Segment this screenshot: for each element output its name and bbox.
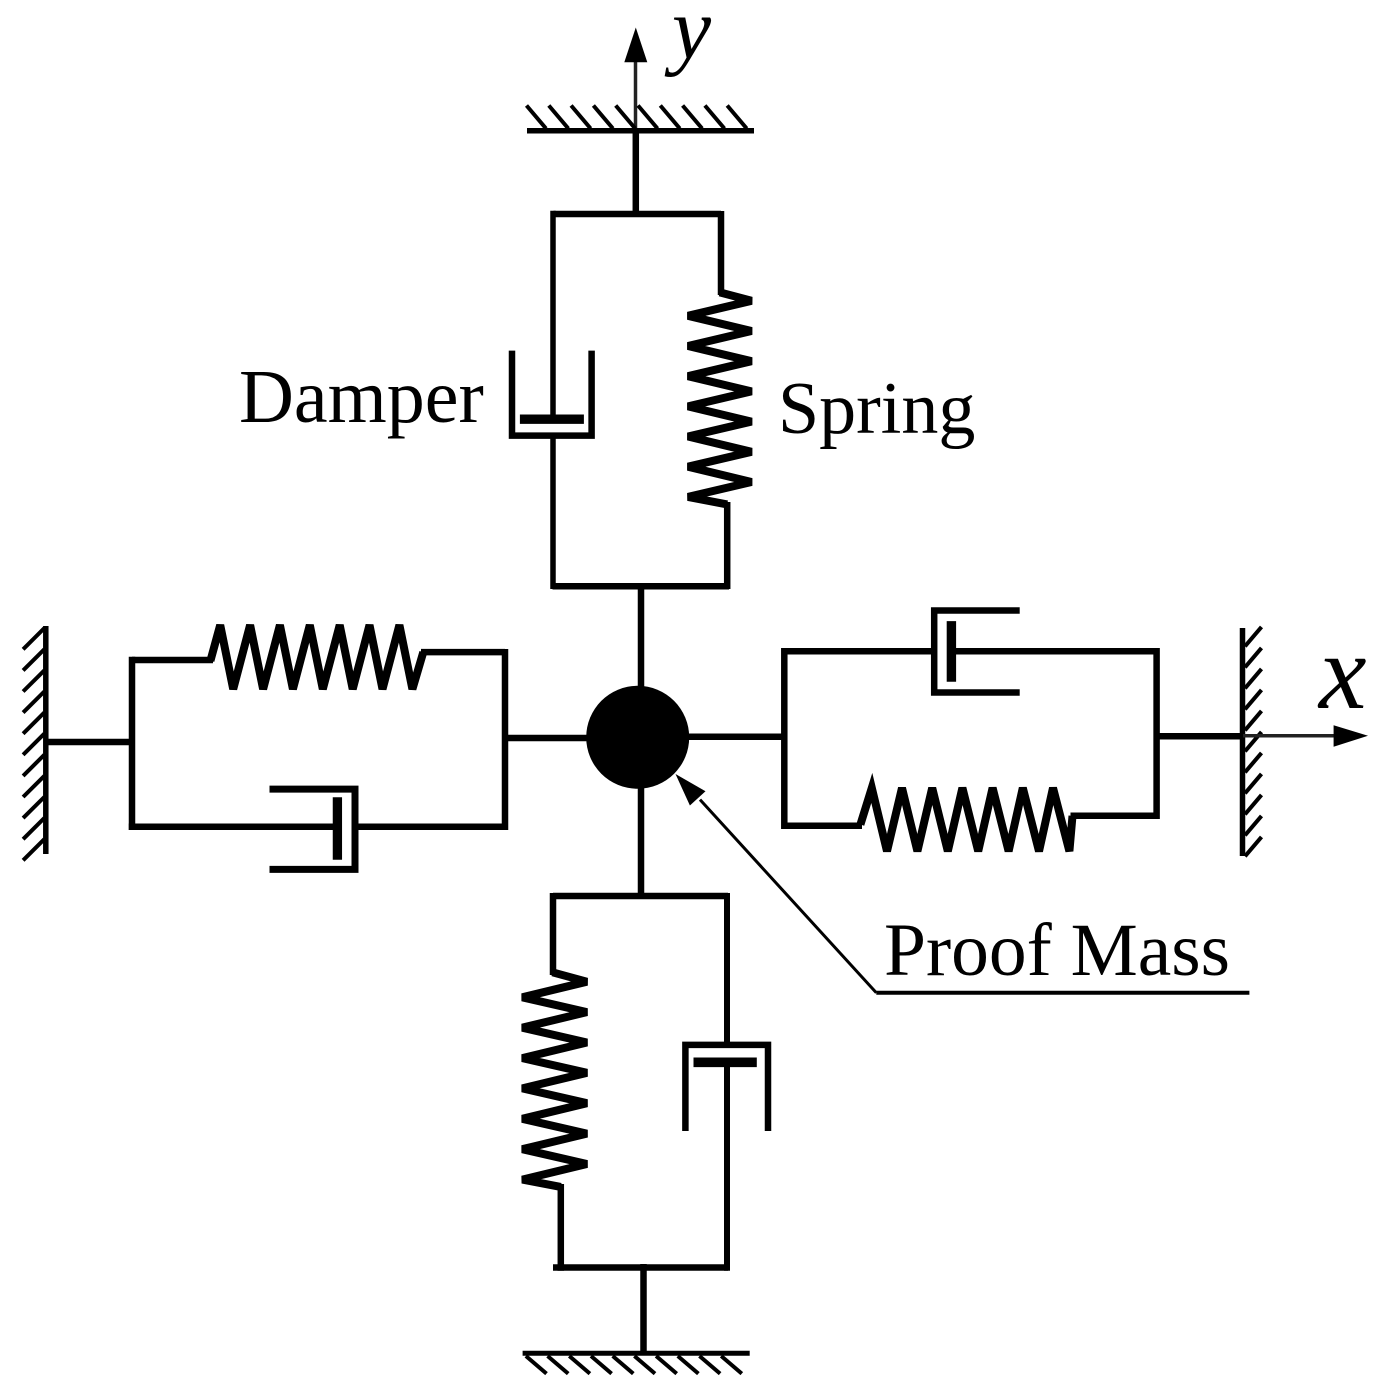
wire right box to right wall <box>1157 733 1243 740</box>
svg-text:y: y <box>664 0 712 78</box>
damper D2 cup <box>270 789 356 869</box>
svg-text:x: x <box>1317 614 1367 732</box>
svg-text:Proof Mass: Proof Mass <box>884 909 1230 992</box>
damper D3 output wire <box>956 648 1157 655</box>
damper D4 input wire (bottom assembly) <box>724 893 730 1047</box>
damper D1 cup <box>512 351 592 436</box>
spring K2 (left assembly) <box>210 625 423 689</box>
damper D2 output wire <box>352 824 508 831</box>
damper D3 piston plate <box>947 621 956 682</box>
top box frame <box>553 214 730 586</box>
wire bottom box to bottom wall <box>640 1264 647 1353</box>
bottom wall anchor <box>523 1353 750 1373</box>
spring K1 (top assembly) <box>688 211 752 589</box>
spring K4 (bottom assembly) <box>522 893 587 1271</box>
proof mass leader arrow <box>676 774 877 993</box>
wire left wall to left box <box>45 739 135 746</box>
left box frame <box>132 649 505 830</box>
bottom box frame <box>553 896 728 1268</box>
damper D1 rod (top assembly) <box>550 211 556 416</box>
wire top box to mass <box>638 583 645 700</box>
proof mass M <box>586 686 689 789</box>
right box frame <box>784 648 1157 829</box>
left wall anchor <box>23 626 46 860</box>
right wall anchor <box>1243 627 1262 856</box>
label underline <box>876 991 1249 995</box>
damper D3 cup (right assembly, top branch) <box>934 611 1020 693</box>
wire mass to bottom box <box>638 776 645 899</box>
damper D1 lower stem <box>550 437 556 589</box>
svg-text:Damper: Damper <box>239 355 484 439</box>
spring K3 (right assembly, bottom branch) <box>860 788 1072 851</box>
damper D1 piston plate <box>520 415 584 424</box>
damper D4 rod <box>724 1062 730 1271</box>
damper D4 cup <box>685 1045 768 1131</box>
damper D2 piston plate <box>333 797 342 860</box>
damper D2 rod (left assembly, bottom branch) <box>129 824 333 831</box>
top wall anchor <box>527 106 755 131</box>
wire wall to top box <box>633 130 640 217</box>
wire left box to mass <box>505 735 600 742</box>
svg-text:Spring: Spring <box>778 368 975 450</box>
x axis <box>1243 725 1368 746</box>
wire mass to right box <box>680 733 787 740</box>
damper D4 piston plate <box>694 1058 757 1068</box>
y axis <box>624 28 647 134</box>
